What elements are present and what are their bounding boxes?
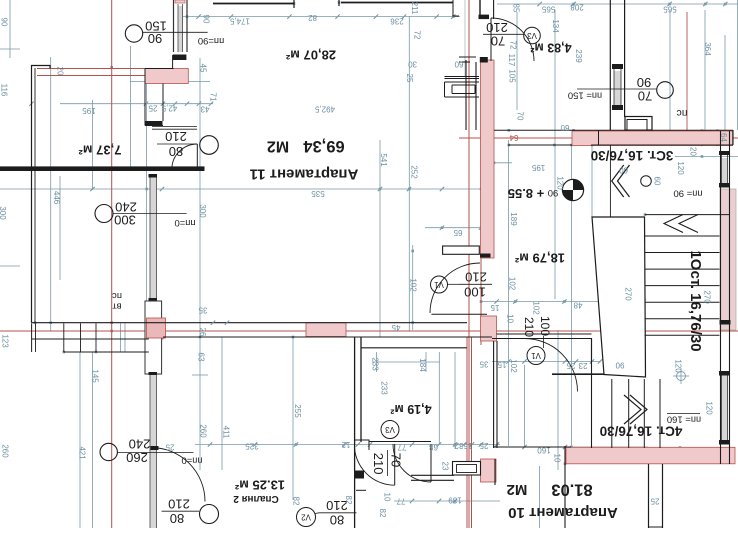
svg-text:211: 211 bbox=[410, 2, 419, 15]
svg-text:421: 421 bbox=[78, 446, 87, 460]
door D3 (100/210) center V1: leaf + arc bbox=[431, 313, 487, 315]
svg-text:300: 300 bbox=[198, 204, 207, 218]
wire grid v x125 bbox=[124, 323, 126, 352]
door circle D1 (80/210) bbox=[200, 136, 219, 155]
left exterior wall x31 bbox=[31, 65, 33, 323]
wire grid v x455 bbox=[454, 352, 456, 449]
svg-text:71: 71 bbox=[209, 93, 218, 102]
svg-text:85: 85 bbox=[512, 4, 521, 13]
wall block P2 on wall y331 bbox=[146, 320, 163, 339]
svg-text:233: 233 bbox=[371, 357, 380, 371]
axis line C y331 bbox=[0, 330, 738, 332]
svg-text:81.03: 81.03 bbox=[551, 481, 592, 499]
wire grid v x80 bbox=[79, 352, 81, 528]
wire grid v x409 bbox=[408, 16, 410, 331]
svg-text:364: 364 bbox=[703, 42, 712, 56]
wall x610 bbox=[609, 0, 611, 130]
door arc D7 stair entry (100/210) bbox=[525, 339, 578, 392]
top-left room wall y65 bbox=[31, 66, 50, 69]
svg-text:300: 300 bbox=[0, 206, 7, 220]
wall line y447 left of band bbox=[493, 446, 571, 448]
cap y320 bbox=[720, 320, 731, 325]
pink block in shaft bbox=[147, 318, 166, 338]
svg-text:260: 260 bbox=[199, 424, 208, 438]
svg-text:V3: V3 bbox=[385, 425, 395, 434]
dim line y447 bbox=[497, 446, 648, 448]
dim line v x10 bbox=[9, 0, 11, 58]
left wall inner x35 bbox=[34, 68, 36, 323]
wire grid v x465 bbox=[464, 0, 466, 76]
svg-text:68: 68 bbox=[429, 443, 438, 452]
tick y375 bbox=[192, 374, 208, 376]
svg-text:117: 117 bbox=[507, 54, 516, 67]
wall stub x598 in band bbox=[598, 130, 600, 145]
svg-text:134: 134 bbox=[551, 19, 560, 33]
dim line y361 bbox=[492, 361, 600, 363]
wall pair x466-476 upper bbox=[465, 60, 467, 130]
red wall line y68 bbox=[37, 68, 147, 70]
svg-text:210: 210 bbox=[522, 317, 536, 337]
axis line A x112 bbox=[111, 0, 113, 528]
svg-text:565: 565 bbox=[663, 5, 677, 14]
wall x565 below band bbox=[564, 446, 566, 528]
svg-text:20: 20 bbox=[689, 147, 698, 156]
svg-text:10: 10 bbox=[506, 314, 515, 323]
wall band P7 bottom right bbox=[566, 447, 735, 464]
door jamb caps strip bbox=[479, 15, 490, 20]
stair bottom edge y374 bbox=[552, 373, 605, 375]
svg-text:123: 123 bbox=[1, 334, 10, 348]
svg-text:240: 240 bbox=[115, 200, 137, 215]
svg-text:М2: М2 bbox=[507, 481, 528, 498]
svg-text:25: 25 bbox=[165, 443, 174, 452]
svg-text:М2: М2 bbox=[267, 138, 289, 155]
svg-text:446: 446 bbox=[52, 191, 61, 205]
glazed wall cap y446 bbox=[151, 446, 159, 450]
top wall segments at y3 bbox=[213, 3, 294, 5]
svg-text:30: 30 bbox=[408, 60, 417, 69]
svg-text:236: 236 bbox=[390, 17, 404, 26]
dim v x426 bbox=[425, 352, 427, 372]
svg-text:пп= 150: пп= 150 bbox=[568, 90, 602, 101]
wire grid v x92a bbox=[92, 100, 94, 190]
svg-text:60: 60 bbox=[560, 123, 569, 132]
svg-text:пс: пс bbox=[112, 290, 122, 301]
stair left wall x592 bbox=[591, 338, 593, 448]
svg-text:25: 25 bbox=[650, 497, 659, 506]
landing edge y214.5 bbox=[645, 214, 730, 216]
glazed wall fill x150 lower bbox=[150, 174, 157, 528]
wall column P1 top-left bbox=[145, 69, 188, 84]
wall below band x648-663 bbox=[648, 464, 650, 528]
V1 circle center bbox=[431, 276, 448, 293]
svg-text:пп= 90: пп= 90 bbox=[673, 188, 702, 199]
dim line y362 small bbox=[372, 361, 440, 363]
wall block P3 on wall y331 bbox=[306, 323, 346, 337]
svg-text:260: 260 bbox=[1, 444, 10, 458]
wire grid v x439 bbox=[438, 352, 440, 444]
dim line y444 bbox=[195, 444, 500, 446]
svg-text:102: 102 bbox=[532, 301, 541, 315]
window fill right upper bbox=[722, 158, 728, 184]
svg-text:пс: пс bbox=[677, 107, 688, 119]
svg-text:26: 26 bbox=[198, 328, 207, 337]
svg-text:208: 208 bbox=[570, 3, 584, 12]
svg-text:65: 65 bbox=[453, 228, 462, 237]
wall band P6 top right bbox=[572, 131, 733, 146]
chevron arrows mid landing (left) bbox=[612, 165, 630, 197]
dim line top y17 bbox=[181, 16, 460, 18]
svg-text:пп=0: пп=0 bbox=[181, 455, 202, 466]
stair left wall stub x591 bbox=[591, 339, 593, 363]
svg-text:82: 82 bbox=[292, 497, 301, 506]
wire grid v x200 bbox=[199, 58, 201, 470]
wire grid v x92b bbox=[92, 352, 94, 528]
svg-text:4,19 м²: 4,19 м² bbox=[390, 402, 431, 416]
svg-text:210: 210 bbox=[168, 497, 190, 512]
dim v x524 bbox=[524, 365, 526, 447]
axis line F x687 bbox=[686, 12, 688, 145]
svg-text:535: 535 bbox=[311, 189, 325, 198]
svg-text:16: 16 bbox=[463, 441, 472, 450]
red wall line y75 bbox=[37, 75, 147, 77]
svg-text:90: 90 bbox=[615, 361, 624, 370]
svg-text:Апартамент 11: Апартамент 11 bbox=[250, 166, 359, 183]
wall block P5 below door bbox=[481, 316, 497, 341]
svg-text:1Ост. 16,76/30: 1Ост. 16,76/30 bbox=[687, 250, 704, 351]
svg-text:210: 210 bbox=[165, 129, 187, 144]
circle D6 label bbox=[200, 505, 219, 524]
door D1 (80/210) top-left: leaf + arc bbox=[196, 144, 198, 169]
svg-text:541: 541 bbox=[379, 153, 388, 167]
axis bubble circle y375 bbox=[677, 372, 686, 381]
corridor bottom wall y334-338 bbox=[497, 333, 592, 335]
svg-text:пп=90: пп=90 bbox=[198, 35, 224, 46]
svg-text:82: 82 bbox=[344, 496, 353, 505]
svg-text:565: 565 bbox=[541, 5, 555, 14]
wire grid v x737 bbox=[737, 0, 738, 130]
room wall x355-361 (Spalnya2 right) bbox=[354, 337, 356, 471]
svg-text:15: 15 bbox=[497, 360, 506, 369]
shelf rect y246 bbox=[443, 246, 480, 254]
shaft box x145 y301 bbox=[145, 301, 162, 374]
wall band y322-337 bbox=[32, 322, 467, 324]
stair treads lower flight bbox=[611, 379, 613, 448]
svg-text:255: 255 bbox=[293, 404, 302, 418]
svg-text:13.25 м²: 13.25 м² bbox=[234, 478, 285, 493]
window cap y64 bbox=[612, 64, 623, 69]
wire grid v x413 bbox=[412, 245, 414, 330]
svg-text:70: 70 bbox=[516, 112, 525, 121]
svg-text:3Ст. 16,76/30: 3Ст. 16,76/30 bbox=[591, 148, 674, 163]
chevron arrows upper landing (left) bbox=[664, 215, 698, 233]
svg-text:28,07 м²: 28,07 м² bbox=[285, 48, 336, 63]
window circle top right (70/90) bbox=[657, 82, 674, 99]
svg-text:174,5: 174,5 bbox=[229, 17, 250, 26]
stair stringer quad bbox=[592, 217, 646, 377]
svg-text:102: 102 bbox=[409, 278, 418, 292]
svg-text:64: 64 bbox=[719, 133, 728, 142]
flue inner rect bbox=[627, 120, 647, 131]
window fill x614 bbox=[614, 71, 621, 105]
svg-text:210: 210 bbox=[371, 453, 386, 475]
svg-text:77: 77 bbox=[397, 443, 406, 452]
svg-text:233: 233 bbox=[380, 381, 389, 395]
svg-text:210: 210 bbox=[465, 270, 487, 285]
axis line B x469 bbox=[468, 0, 470, 528]
wire grid v x60 bbox=[59, 176, 61, 280]
svg-text:23: 23 bbox=[578, 361, 587, 370]
dim v x517 bbox=[516, 12, 518, 110]
dim line y301 bbox=[481, 301, 645, 303]
wall block P8 bottom center bbox=[481, 459, 497, 482]
door arc D6 bottom-left (80/210) bbox=[151, 448, 205, 502]
chevron arrows lower flight (right) bbox=[624, 395, 647, 424]
door jamb x355 y440 bbox=[355, 440, 369, 450]
wall fill right side x720 bbox=[720, 189, 736, 330]
svg-text:252: 252 bbox=[410, 165, 419, 179]
svg-text:25: 25 bbox=[479, 441, 488, 450]
corridor right wall x493-497 lower bbox=[493, 341, 495, 448]
svg-text:вт: вт bbox=[112, 301, 122, 312]
svg-text:V1: V1 bbox=[434, 280, 444, 289]
red wall line x467 bbox=[466, 337, 468, 528]
svg-text:70: 70 bbox=[389, 453, 404, 467]
door threshold lines y127-129 bbox=[152, 126, 197, 128]
svg-text:492,5: 492,5 bbox=[314, 105, 335, 114]
svg-text:300: 300 bbox=[114, 213, 136, 228]
wall jog x173 bbox=[172, 55, 174, 69]
glazed wall cap y372 bbox=[149, 372, 158, 375]
wire grid v x147 bbox=[146, 82, 148, 323]
V3 circle bath bbox=[381, 421, 399, 439]
V1 circle lower (stair door) bbox=[527, 347, 545, 365]
svg-text:35: 35 bbox=[479, 360, 488, 369]
top right corner wall x453 bbox=[453, 0, 459, 16]
stair treads upper flight bbox=[645, 235, 720, 237]
glazed wall cap y298 bbox=[149, 298, 158, 301]
column outline top-left bbox=[145, 69, 174, 126]
svg-text:145: 145 bbox=[91, 369, 100, 383]
svg-text:90: 90 bbox=[148, 31, 162, 46]
svg-text:10: 10 bbox=[553, 454, 562, 463]
svg-text:60: 60 bbox=[653, 177, 662, 186]
svg-text:72: 72 bbox=[413, 31, 422, 40]
svg-text:25: 25 bbox=[405, 74, 414, 83]
svg-text:48: 48 bbox=[573, 301, 582, 310]
wall line y441 over doors bbox=[369, 441, 431, 443]
svg-text:7,37 м²: 7,37 м² bbox=[78, 143, 122, 158]
wire grid v x380 bbox=[379, 140, 381, 337]
dim line y156 bbox=[675, 156, 738, 158]
svg-text:189: 189 bbox=[509, 212, 518, 226]
pink top bit window wall bbox=[175, 0, 185, 3]
wire grid v x555 bbox=[554, 10, 556, 299]
bath bottom wall y475-480 bbox=[411, 474, 454, 476]
wall edge x495 at P8 bbox=[494, 459, 496, 485]
band edges top right y130 y145 bbox=[494, 129, 733, 131]
wire grid v x670 bbox=[669, 10, 671, 131]
wire grid v x539 bbox=[539, 466, 541, 528]
red wall line x471 bbox=[471, 337, 473, 528]
door jamb cap x354 y470 bbox=[354, 471, 364, 479]
small circle stair bbox=[641, 176, 652, 187]
axis line D y138 bbox=[459, 137, 738, 139]
wall line x610 landing bbox=[609, 145, 611, 217]
svg-text:Спалня 2: Спалня 2 bbox=[233, 493, 279, 504]
svg-text:411: 411 bbox=[222, 426, 231, 439]
svg-text:10: 10 bbox=[383, 493, 392, 502]
svg-text:45: 45 bbox=[199, 64, 208, 73]
svg-text:105: 105 bbox=[508, 69, 517, 83]
svg-text:25: 25 bbox=[148, 104, 157, 113]
svg-text:80: 80 bbox=[170, 511, 184, 526]
wire grid v x130 bbox=[130, 46, 132, 168]
right wall x719/x730 bbox=[720, 131, 722, 464]
svg-text:90: 90 bbox=[202, 15, 211, 24]
door D2 (70/210) top center: leaf + arc bbox=[490, 18, 492, 61]
window cap y105 bbox=[612, 105, 623, 110]
section cut wall thick y170 bbox=[0, 166, 205, 171]
wall x480 above door bbox=[479, 0, 481, 15]
leader W3 bbox=[118, 452, 194, 454]
svg-text:32: 32 bbox=[454, 441, 463, 450]
wire grid v x592 bbox=[591, 145, 593, 217]
svg-text:15: 15 bbox=[490, 303, 499, 312]
wire grid v x120 bbox=[120, 323, 122, 352]
svg-text:64: 64 bbox=[509, 133, 518, 142]
svg-text:139: 139 bbox=[448, 496, 462, 505]
glazed wall cap y174 bbox=[149, 174, 158, 178]
svg-text:239: 239 bbox=[574, 49, 583, 63]
junction dots bbox=[508, 129, 511, 132]
svg-text:V2: V2 bbox=[301, 513, 311, 522]
survey marker +8.55 bbox=[562, 179, 583, 200]
window fill right lower bbox=[722, 375, 728, 440]
dim line y266 bbox=[0, 265, 20, 267]
leader W2 bbox=[113, 213, 186, 215]
wire grid v x725 bbox=[724, 35, 726, 130]
niche rect left of strip y76-97 bbox=[445, 77, 480, 98]
svg-text:35: 35 bbox=[198, 306, 207, 315]
wire grid v x558 bbox=[557, 330, 559, 470]
svg-text:90: 90 bbox=[0, 18, 9, 27]
leader W1 bbox=[143, 31, 208, 33]
svg-text:102: 102 bbox=[508, 277, 517, 291]
svg-text:120: 120 bbox=[676, 161, 685, 175]
svg-text:82: 82 bbox=[378, 509, 387, 518]
wire grid v x293 bbox=[292, 337, 294, 500]
door D4 (70/210) bath V3: leaf + arc bbox=[394, 444, 396, 485]
wall stub y490 bbox=[356, 489, 366, 491]
svg-text:43: 43 bbox=[200, 105, 209, 114]
wire grid v x705 bbox=[704, 10, 706, 130]
svg-text:77: 77 bbox=[396, 497, 405, 506]
svg-text:12: 12 bbox=[341, 440, 350, 449]
dim line y163 bbox=[481, 162, 512, 164]
dim v x376 bbox=[376, 352, 378, 372]
svg-text:18,79 м²: 18,79 м² bbox=[514, 251, 565, 266]
glazed wall bottom cap y54 bbox=[173, 55, 187, 61]
window circle W1 (90/150) bbox=[125, 25, 142, 42]
dim line y49 left bbox=[0, 48, 20, 50]
svg-text:23: 23 bbox=[441, 462, 450, 471]
svg-text:Апартамент 10: Апартамент 10 bbox=[508, 504, 618, 521]
door D5 (80/210) spalnya V2: leaf + arc bbox=[430, 444, 432, 482]
svg-text:V3: V3 bbox=[527, 31, 537, 40]
V2 circle spalnya bbox=[297, 508, 316, 527]
flue outer rect bbox=[625, 117, 652, 131]
dim line top right y4 bbox=[497, 3, 738, 5]
svg-text:120: 120 bbox=[556, 176, 565, 190]
svg-text:25: 25 bbox=[566, 361, 575, 370]
svg-text:195: 195 bbox=[531, 163, 545, 172]
wire grid v x571 bbox=[571, 145, 573, 447]
strip bottom cap bbox=[480, 254, 491, 258]
svg-text:20: 20 bbox=[56, 67, 65, 76]
svg-text:120: 120 bbox=[674, 359, 683, 373]
svg-text:60: 60 bbox=[454, 60, 463, 69]
svg-text:270: 270 bbox=[624, 287, 633, 301]
V3 circle top (4.83 room door) bbox=[524, 27, 541, 44]
svg-text:45: 45 bbox=[391, 323, 400, 332]
svg-text:195: 195 bbox=[82, 106, 96, 115]
svg-text:100: 100 bbox=[538, 316, 552, 336]
svg-text:4,83 м²: 4,83 м² bbox=[530, 41, 571, 55]
svg-text:80: 80 bbox=[330, 513, 344, 528]
svg-text:70: 70 bbox=[638, 89, 652, 104]
bath top wall y348 bbox=[361, 347, 467, 349]
svg-text:102: 102 bbox=[509, 359, 518, 373]
svg-text:63: 63 bbox=[197, 353, 206, 362]
svg-text:100: 100 bbox=[464, 285, 486, 300]
wire grid v x508 bbox=[508, 140, 510, 446]
wall x624 bbox=[624, 0, 626, 117]
svg-text:82: 82 bbox=[308, 13, 317, 22]
dim line y81 bbox=[130, 81, 210, 83]
dim line y501 bbox=[394, 500, 500, 502]
svg-text:70: 70 bbox=[491, 34, 505, 49]
svg-text:42,5: 42,5 bbox=[161, 104, 177, 113]
wire grid v x50 bbox=[50, 57, 52, 331]
svg-text:4Ст. 16,76/30: 4Ст. 16,76/30 bbox=[600, 424, 683, 439]
svg-text:пп= 160: пп= 160 bbox=[667, 414, 701, 425]
wire grid v x222 bbox=[221, 337, 223, 470]
svg-text:270: 270 bbox=[703, 290, 712, 304]
svg-text:+ 8.55: + 8.55 bbox=[508, 186, 545, 201]
dim line y189 bbox=[0, 188, 481, 190]
svg-text:184: 184 bbox=[418, 358, 427, 372]
shaft walls bottom-left bbox=[32, 338, 149, 340]
svg-text:240: 240 bbox=[129, 437, 151, 452]
svg-text:пп=0: пп=0 bbox=[174, 217, 195, 228]
svg-text:60: 60 bbox=[619, 166, 628, 175]
stove rect bbox=[453, 462, 481, 476]
svg-text:120: 120 bbox=[705, 401, 714, 415]
svg-text:V1: V1 bbox=[531, 351, 541, 360]
axis line E x481 bbox=[480, 57, 482, 345]
dim line y228 bbox=[425, 227, 481, 229]
wall cap black x146 y121 bbox=[146, 121, 163, 126]
svg-text:90: 90 bbox=[637, 75, 651, 90]
svg-text:325: 325 bbox=[245, 442, 259, 451]
svg-text:160: 160 bbox=[537, 446, 551, 455]
window circle W2 (300/240) bbox=[95, 205, 113, 223]
svg-text:210: 210 bbox=[486, 20, 508, 35]
dim line y104 bbox=[60, 103, 213, 105]
window circle W3 (260/240) bbox=[100, 443, 117, 460]
svg-text:72: 72 bbox=[509, 41, 518, 50]
